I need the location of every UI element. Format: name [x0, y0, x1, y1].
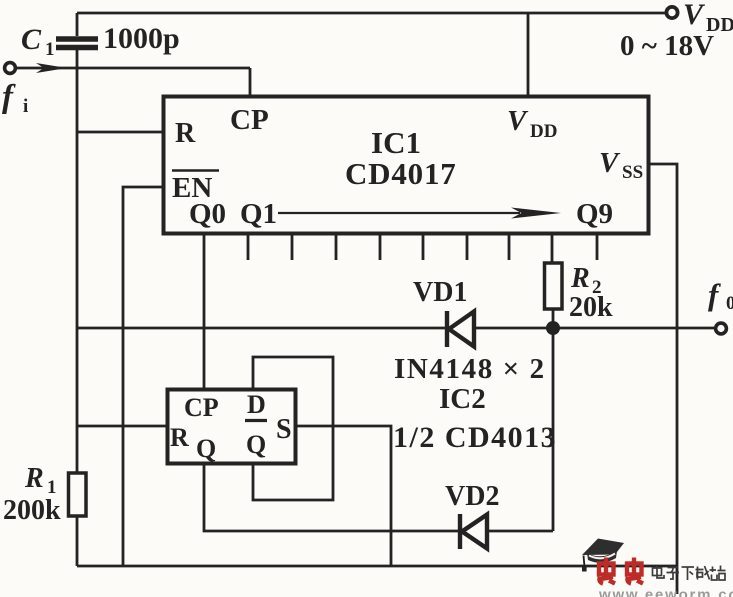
wire bottom ground rail [77, 565, 677, 568]
svg-text:IC2: IC2 [439, 383, 486, 415]
terminal f0 output [716, 323, 727, 334]
diode VD2 [460, 514, 487, 549]
node junction R2/VD1/VD2 [546, 321, 560, 335]
svg-text:S: S [276, 414, 292, 445]
label R2 [570, 263, 602, 298]
wire EN pin [123, 187, 163, 566]
wire Q0 pin to IC2 CP [203, 234, 206, 389]
wire Q6 stub [466, 234, 469, 260]
svg-text:CD4017: CD4017 [345, 156, 457, 191]
terminal fi input [5, 63, 16, 74]
svg-text:V: V [683, 0, 706, 31]
arrow Q1 to Q9 inside IC1 [278, 212, 520, 214]
wire IC2 R pin [77, 425, 167, 428]
svg-text:C: C [21, 23, 42, 56]
logo chongchong red glyphs [598, 558, 643, 584]
svg-text:CP: CP [230, 104, 269, 136]
logo gray glyphs dianzi xiazaizhan [653, 566, 726, 581]
wire C1 top lead [76, 13, 79, 36]
svg-text:DD: DD [530, 121, 557, 142]
svg-text:www.eeworm.com: www.eeworm.com [598, 587, 733, 597]
svg-text:CP: CP [184, 393, 219, 422]
svg-text:V: V [599, 147, 621, 179]
svg-text:R: R [24, 463, 44, 494]
svg-text:R: R [175, 118, 196, 149]
label fi [2, 79, 28, 117]
svg-text:1/2 CD4013: 1/2 CD4013 [393, 421, 557, 454]
svg-text:f: f [2, 79, 16, 115]
IC U2 flip-flop CD4013 (IC2) box [168, 390, 296, 464]
wire S pin to ground [296, 426, 391, 566]
wire Q3 stub [335, 234, 338, 260]
wire Q9 stub [596, 234, 599, 260]
terminal VDD supply [666, 7, 677, 18]
wire Q pin to VD2 [204, 464, 553, 531]
svg-text:Q0: Q0 [189, 198, 226, 230]
wire VDD pin [527, 13, 530, 96]
svg-text:0: 0 [726, 293, 733, 314]
wire R pin [77, 131, 163, 134]
overline EN [172, 169, 219, 172]
svg-text:i: i [23, 96, 28, 117]
wire Q5 stub [422, 234, 425, 260]
IC U1 counter CD4017 (IC1) box [164, 97, 649, 234]
svg-text:Q: Q [196, 434, 216, 463]
wire R2 bottom lead [552, 309, 555, 328]
wire top supply rail [77, 12, 666, 15]
label VDD pin IC1 [507, 105, 557, 142]
resistor R1 [69, 473, 87, 516]
svg-text:1: 1 [45, 39, 55, 60]
svg-text:SS: SS [622, 162, 643, 183]
svg-text:VD1: VD1 [413, 277, 467, 308]
svg-text:R: R [170, 423, 189, 452]
svg-text:V: V [507, 105, 529, 137]
label f0 output [708, 277, 733, 314]
svg-text:R: R [570, 263, 590, 294]
resistor R2 [545, 263, 563, 309]
overline Qbar IC2 [245, 419, 267, 422]
wire Q7 stub [508, 234, 511, 260]
label VSS pin IC1 [599, 147, 643, 183]
label C1 [21, 23, 55, 60]
logo graduation cap [582, 539, 624, 572]
wire Q8 pin to R2 [551, 234, 554, 263]
wire D to Qbar loop [253, 357, 333, 500]
svg-text:200k: 200k [3, 495, 61, 526]
diode VD1 [447, 311, 474, 347]
svg-text:20k: 20k [569, 292, 613, 323]
svg-text:0 ~ 18V: 0 ~ 18V [620, 30, 714, 62]
svg-text:Q: Q [246, 430, 266, 459]
wire fi input [15, 67, 251, 70]
svg-text:f: f [708, 277, 721, 312]
svg-text:IC1: IC1 [371, 125, 421, 160]
capacitor C1 [56, 39, 98, 48]
wire CP entry [249, 68, 252, 96]
arrow fi direction [36, 63, 67, 73]
wire f0 rail [77, 327, 716, 330]
wire Q2 stub [291, 234, 294, 260]
wire Q4 stub [379, 234, 382, 260]
wire left vertical (C1 bottom to R1 top) [76, 50, 79, 473]
wire Q1 stub [247, 234, 250, 260]
wire VSS pin [650, 164, 677, 594]
wire junction down to VD2 [552, 328, 555, 531]
svg-text:D: D [247, 390, 266, 419]
label R1 [24, 463, 57, 498]
svg-text:IN4148 × 2: IN4148 × 2 [394, 353, 546, 385]
label VDD supply [683, 0, 733, 36]
svg-text:VD2: VD2 [445, 481, 499, 512]
svg-text:Q1: Q1 [240, 198, 277, 230]
svg-text:1000p: 1000p [103, 22, 180, 55]
wire R1 bottom lead [76, 516, 79, 566]
svg-text:Q9: Q9 [576, 198, 613, 230]
